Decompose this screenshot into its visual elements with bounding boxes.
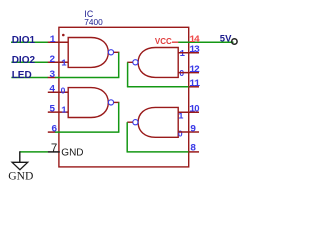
NAND gate A body [68, 38, 108, 68]
gate A output stub [114, 51, 120, 53]
svg-text:VCC: VCC [155, 37, 172, 46]
wire gate C output down [127, 62, 129, 87]
wire gate A output to pin 3 [55, 77, 119, 79]
pin 2 stub [48, 61, 69, 63]
wire DIO1 net [11, 41, 48, 43]
svg-text:9: 9 [190, 124, 196, 135]
pin 8 stub [189, 151, 199, 153]
gate A output bubble [108, 50, 113, 55]
svg-text:7: 7 [51, 143, 57, 155]
pin 9 stub [178, 131, 199, 133]
gate A pin1 marker dot [62, 34, 65, 37]
svg-text:DIO1: DIO1 [12, 35, 36, 46]
svg-text:1: 1 [61, 58, 67, 68]
svg-text:GND: GND [8, 170, 33, 183]
svg-text:2: 2 [194, 65, 200, 76]
wire gate D output to pin 8 [127, 151, 189, 153]
NAND gate C body (mirrored) [138, 48, 178, 78]
gate B output bubble [108, 100, 113, 105]
wire gate D output down [126, 122, 128, 152]
wire gate B output to pin 6 [55, 131, 119, 133]
svg-text:6: 6 [51, 124, 57, 135]
svg-text:1: 1 [194, 79, 200, 90]
gate D output bubble [133, 120, 138, 125]
wire gate B output down [118, 102, 120, 132]
wire DIO2 net [11, 61, 48, 63]
svg-text:7400: 7400 [84, 17, 103, 27]
pin 4 stub [48, 91, 69, 93]
svg-text:0: 0 [194, 103, 199, 114]
gate C output bubble [133, 60, 138, 65]
svg-text:3: 3 [49, 70, 55, 81]
NAND gate D body (mirrored) [138, 107, 178, 137]
svg-text:LED: LED [12, 70, 32, 81]
pin 13 stub [178, 52, 199, 54]
svg-text:2: 2 [49, 55, 55, 66]
wire gate C output to pin 11 [127, 86, 189, 88]
svg-text:5V: 5V [220, 33, 232, 44]
gate D output stub [127, 121, 133, 123]
pin 5 stub [48, 111, 69, 113]
IC U1 body rectangle [59, 27, 189, 167]
svg-text:5: 5 [49, 105, 55, 116]
svg-text:0: 0 [61, 85, 66, 95]
wire LED net (outside) [11, 77, 48, 79]
pin 1 stub [48, 41, 69, 43]
gate C output stub [127, 61, 133, 63]
ground symbol [12, 162, 28, 169]
svg-text:GND: GND [61, 148, 83, 159]
wire GND net [20, 151, 48, 153]
NAND gate B body [68, 88, 108, 118]
svg-text:DIO2: DIO2 [12, 55, 36, 66]
pin 10 stub [178, 111, 199, 113]
pin 12 stub [178, 72, 199, 74]
connector terminal circle [232, 39, 237, 44]
pin 3 stub [48, 77, 56, 79]
svg-text:8: 8 [190, 143, 196, 154]
GND lead vertical [19, 151, 21, 162]
wire gate A output down [118, 52, 120, 77]
wire 5V net [178, 41, 233, 43]
pin 7 stub (GND, black) [48, 151, 60, 153]
gate B output stub [114, 101, 120, 103]
svg-text:4: 4 [49, 85, 55, 96]
svg-text:0: 0 [178, 129, 183, 139]
pin 6 stub [48, 131, 56, 133]
pin 14 stub [172, 41, 179, 43]
svg-text:1: 1 [180, 49, 186, 59]
svg-text:1: 1 [61, 106, 67, 116]
svg-text:1: 1 [50, 35, 56, 46]
pin 11 stub [189, 86, 199, 88]
svg-text:3: 3 [194, 45, 200, 56]
